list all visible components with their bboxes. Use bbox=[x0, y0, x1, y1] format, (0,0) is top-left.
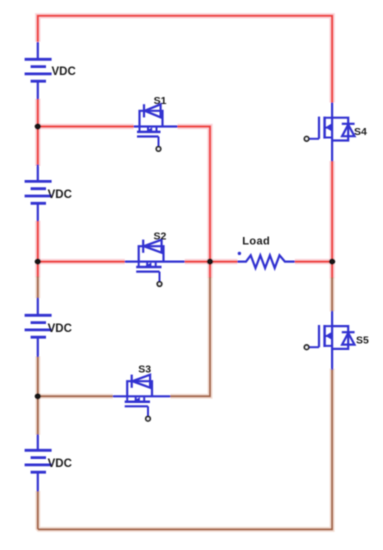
wire: node E down to battery V4 bbox=[37, 396, 39, 435]
mosfet S2 bbox=[125, 240, 185, 282]
wire halos (soft glow around nets) bbox=[38, 16, 332, 278]
mosfet S5 bbox=[309, 311, 355, 370]
wire: battery V2 bottom to node C bbox=[37, 221, 39, 262]
svg-text:S4: S4 bbox=[354, 126, 367, 138]
wire: node A to S1 input bbox=[38, 125, 134, 127]
battery V2 bbox=[25, 165, 52, 222]
svg-text:VDC: VDC bbox=[48, 323, 72, 335]
svg-text:S1: S1 bbox=[154, 95, 167, 107]
svg-text:S5: S5 bbox=[356, 335, 369, 347]
svg-text:VDC: VDC bbox=[48, 189, 72, 201]
wire: S4 output down to node D bbox=[331, 161, 333, 262]
wire: node A down to battery V2 bbox=[37, 127, 39, 167]
wire: battery V1 bottom to node A bbox=[37, 99, 39, 127]
gate terminal circle S4 bbox=[304, 137, 308, 141]
svg-text:VDC: VDC bbox=[48, 458, 72, 470]
wire: node B down (red part of S3 riser) bbox=[209, 262, 211, 278]
gate terminal circle S5 bbox=[304, 345, 308, 349]
wire: S3 output right and up toward node B bbox=[170, 277, 210, 396]
wire: node E to S3 input bbox=[38, 395, 113, 397]
wire: node C to battery V3 (brown part) bbox=[37, 277, 39, 299]
gate terminal circle S2 bbox=[157, 282, 161, 286]
wire: bottom rail from battery V4 to S5 bbox=[38, 369, 332, 530]
gate terminal circle S1 bbox=[156, 147, 160, 151]
resistor Load bbox=[237, 255, 294, 268]
wire: node D down (red part) bbox=[331, 262, 333, 279]
load marker dot bbox=[238, 252, 241, 255]
wire: node D to S5 (brown part) bbox=[331, 278, 333, 312]
junction node D bbox=[329, 259, 335, 265]
wire: node B to Load left lead bbox=[210, 261, 237, 263]
junction node E bbox=[35, 393, 41, 399]
gate terminal circle S3 bbox=[146, 417, 150, 421]
wire: S1 output right and down to node B bbox=[178, 127, 211, 262]
battery V3 bbox=[25, 298, 52, 357]
svg-text:S3: S3 bbox=[138, 363, 151, 375]
mosfet S1 bbox=[134, 104, 178, 147]
battery V4 bbox=[25, 434, 52, 491]
junction node B bbox=[207, 259, 213, 265]
svg-text:Load: Load bbox=[242, 236, 270, 248]
wire: node C to S2 input bbox=[38, 261, 125, 263]
wire: S2 output to node B bbox=[185, 261, 210, 263]
wire: node C down (red part) bbox=[37, 262, 39, 278]
battery V1 bbox=[25, 42, 52, 99]
mosfet S4 bbox=[309, 103, 355, 162]
junction node A bbox=[35, 123, 41, 129]
junction node C bbox=[35, 259, 41, 265]
mosfet S3 bbox=[113, 375, 171, 417]
svg-text:VDC: VDC bbox=[52, 66, 76, 78]
wire: battery V3 bottom to node E bbox=[37, 356, 39, 396]
wire: Load right lead to node D bbox=[295, 261, 332, 263]
svg-text:S2: S2 bbox=[154, 230, 167, 242]
wire: top rail net bbox=[38, 16, 332, 103]
